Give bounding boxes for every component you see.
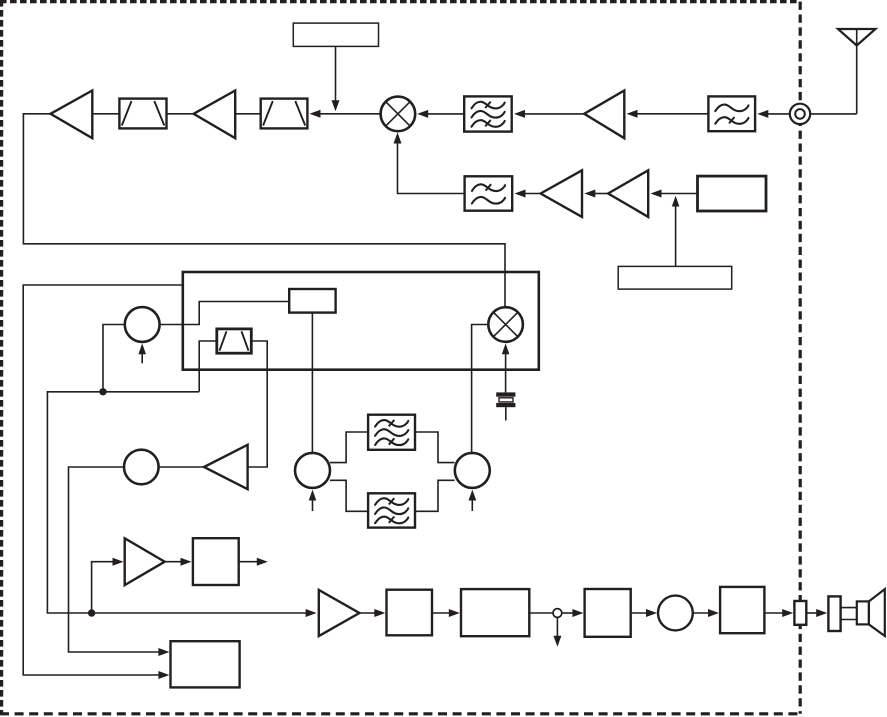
wire EQ to tap node <box>529 612 553 614</box>
wire amp1 to ceramic filter 1 <box>92 113 119 115</box>
arrowhead into audio amp <box>306 609 317 617</box>
wire ceramic filter right down to limiter amp <box>248 341 268 467</box>
node dot on bus <box>99 388 106 395</box>
node dot audio bus <box>88 609 95 616</box>
volume circle <box>658 596 693 631</box>
tap node circle <box>553 609 562 618</box>
oscillator circle (VCO) <box>125 307 160 342</box>
mixer (1st) <box>381 97 416 132</box>
wire bus horizontal <box>47 392 307 613</box>
deemphasis box <box>585 589 631 637</box>
ceramic filter 1 <box>119 99 166 129</box>
amplifier mute <box>125 538 165 585</box>
connector J1 <box>790 104 810 124</box>
wire ceramic filter 1 to amp2 <box>168 113 194 115</box>
wire band-pass filter to mixer <box>417 110 464 118</box>
EQ box <box>461 589 529 636</box>
mixer (demod) <box>488 307 523 342</box>
wire audio amp to filter box <box>359 609 385 617</box>
wire to connector rect <box>764 609 793 617</box>
amplifier limiter <box>204 445 248 489</box>
output connector rect <box>794 601 806 625</box>
wire oscillator to LO amp2 <box>651 190 698 198</box>
wire quad left to band filter A <box>330 432 368 463</box>
speaker <box>857 589 885 636</box>
amplifier audio <box>319 590 360 636</box>
wire bus up to mute amp <box>92 558 124 613</box>
wire arrow into quad circle left <box>309 490 317 511</box>
speaker driver rect <box>828 596 840 631</box>
demodulator block box <box>183 272 539 370</box>
wire limiter to det circle <box>159 466 204 468</box>
band-pass filter B <box>368 493 415 527</box>
amplifier IF1 <box>51 91 93 139</box>
wire connector to RF filter <box>757 110 790 118</box>
wire RF filter to LNA <box>627 110 709 118</box>
wire AGC down arrow <box>332 46 340 111</box>
wire LNA to band-pass filter <box>514 110 584 118</box>
oscillator box <box>698 176 767 211</box>
wire mute amp to box <box>165 558 192 566</box>
amplifier IF2 <box>194 91 236 139</box>
divider box in demod block <box>289 289 335 313</box>
wire quad left to band filter B <box>330 480 368 511</box>
local oscillator chain: wire filter to mixer LO port <box>394 133 465 194</box>
high-pass filter (RF input) <box>708 96 755 131</box>
detector circle <box>124 450 159 485</box>
wire ceramic filter left down to bus <box>199 341 217 392</box>
wire demod mixer to quadrature path <box>472 325 489 453</box>
wire to power amp box <box>693 609 719 617</box>
wire to EQ box <box>432 609 460 617</box>
wire IF output feedback to demod mixer <box>23 114 505 308</box>
wire arrow into VCO <box>138 343 146 363</box>
wire band filter B to quad right <box>415 480 455 511</box>
wire mute box output arrow <box>239 558 268 566</box>
low-pass filter (LO) <box>465 176 513 210</box>
ceramic filter in demod block <box>217 329 252 353</box>
amplifier LO buffer 1 <box>541 170 582 217</box>
wire VCO right into demod box to divider <box>160 302 290 325</box>
power amp box <box>720 587 764 633</box>
wire crystal to demod mixer <box>502 343 510 392</box>
AGC box (top) <box>293 23 378 46</box>
wire amp2 to ceramic filter 2 <box>235 113 261 115</box>
wire to volume circle <box>631 609 657 617</box>
mute control box <box>193 538 239 585</box>
PLL reference box <box>618 266 732 289</box>
wire LO amp1 to filter <box>515 190 541 198</box>
wire PLL control up arrow <box>672 196 680 267</box>
audio filter box <box>387 590 433 636</box>
amplifier LO buffer 2 <box>608 170 648 217</box>
band-pass filter (1st IF) <box>464 96 512 131</box>
quad circle left <box>295 453 330 488</box>
wire LO amp2 to amp1 <box>584 190 608 198</box>
wire det circle to DSP <box>69 467 170 656</box>
wire demod box left to DSP <box>23 285 183 679</box>
wire to speaker driver rect <box>806 609 827 617</box>
wire pair to speaker <box>841 608 857 620</box>
amplifier LNA <box>584 91 624 139</box>
antenna <box>838 29 876 114</box>
ceramic filter 2 <box>261 99 308 129</box>
DSP box <box>171 641 240 687</box>
wire band filter A to quad right <box>415 432 455 463</box>
band-pass filter A <box>368 415 415 450</box>
wire divider down to quad circle <box>311 313 313 453</box>
wire tap to deemphasis box <box>562 609 584 617</box>
wire arrow into quad circle right <box>469 490 477 511</box>
wire antenna to connector <box>810 113 856 115</box>
wire tap node down arrow <box>553 617 561 646</box>
wire mixer to ceramic filter 2 <box>310 110 381 118</box>
crystal resonator <box>496 392 515 420</box>
quad circle right <box>455 453 490 488</box>
wire VCO left to bus <box>103 325 125 392</box>
